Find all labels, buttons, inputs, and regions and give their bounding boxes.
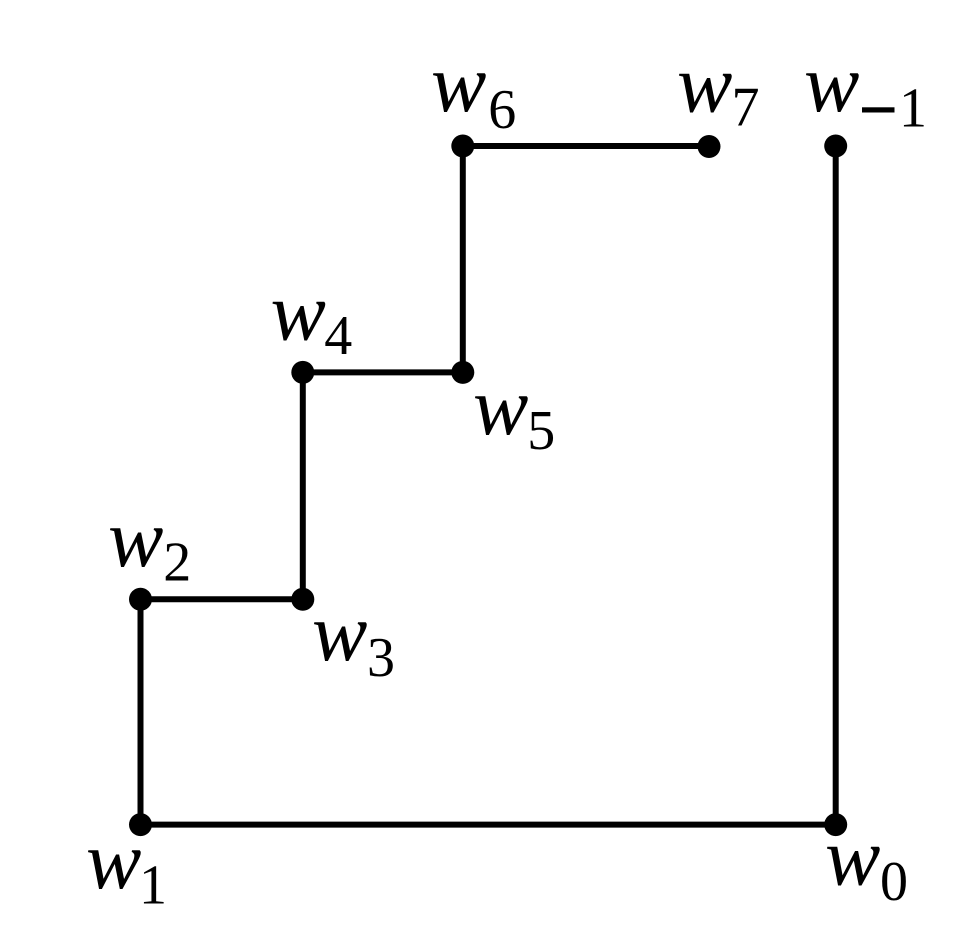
svg-text:w: w [473,360,528,452]
label w5 [473,360,555,462]
svg-text:w: w [312,586,367,678]
svg-text:w: w [825,811,880,903]
svg-text:w: w [271,266,326,358]
label w-1 [804,37,927,140]
svg-text:1: 1 [139,854,167,916]
wire w1-w0 (bottom horizontal) [141,822,836,828]
wire w6-w7 [463,143,709,149]
svg-text:1: 1 [899,78,927,140]
svg-text:w: w [86,814,141,906]
svg-text:w: w [677,38,732,130]
svg-text:5: 5 [527,400,555,462]
svg-text:6: 6 [488,79,516,141]
node w2 [129,588,152,611]
label w0 [825,811,908,914]
label w7 [677,38,760,139]
label w1 [86,814,167,916]
wire w5-w6 [460,146,466,372]
label w6 [431,37,516,141]
node w6 [451,135,474,158]
svg-text:2: 2 [163,531,191,593]
label w2 [108,492,191,593]
node w-1 [824,135,847,158]
svg-text:3: 3 [367,627,395,689]
label w4 [271,266,353,368]
wire w4-w5 [303,369,463,375]
node w0 [824,813,847,836]
node w5 [451,361,474,384]
svg-text:7: 7 [732,77,760,139]
wire w3-w4 [300,372,306,599]
wire w2-w3 [141,596,303,602]
svg-text:w: w [108,492,163,584]
svg-text:4: 4 [324,305,352,367]
svg-text:w: w [804,37,859,129]
wire w0-w-1 (right vertical) [833,146,839,825]
label w3 [312,586,395,689]
wire w1-w2 (left vertical) [138,599,144,824]
node w7 [698,135,721,158]
svg-text:0: 0 [880,851,908,913]
svg-text:w: w [431,37,486,129]
node w1 [129,813,152,836]
node w3 [291,588,314,611]
node w4 [291,361,314,384]
